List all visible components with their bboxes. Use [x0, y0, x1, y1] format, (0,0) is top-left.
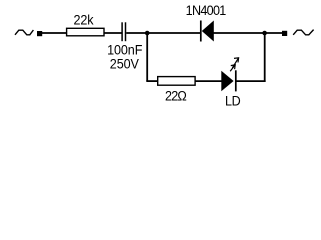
diode D1 triangle [202, 21, 214, 42]
svg-text:22k: 22k [73, 12, 93, 28]
svg-text:LD: LD [225, 93, 241, 109]
AC source tilde left [15, 30, 33, 35]
terminal square left [37, 31, 42, 36]
svg-text:22Ω: 22Ω [165, 88, 187, 104]
wire terminal to R1 [42, 32, 67, 34]
wire C1 to D1 [126, 32, 200, 34]
resistor R1 box [67, 28, 104, 36]
resistor R2 box [158, 77, 195, 86]
LD emission arrow large [232, 58, 238, 68]
LD emission arrow small [230, 65, 235, 71]
terminal square right [282, 31, 287, 36]
diode D1 cathode bar [200, 21, 202, 42]
capacitor C1 plate left [121, 22, 123, 41]
wire node A to R2 [146, 80, 158, 82]
wire node A down [146, 33, 148, 81]
capacitor C1 plate right [125, 22, 127, 41]
wire LD to right vertical [237, 80, 266, 82]
wire R2 to LD [195, 80, 222, 82]
svg-text:1N4001: 1N4001 [186, 3, 226, 19]
AC source tilde right [293, 30, 313, 35]
svg-text:250V: 250V [110, 56, 139, 72]
laser diode LD cathode bar [235, 70, 237, 91]
wire D1 to right terminal [214, 32, 283, 34]
laser diode LD triangle [221, 71, 233, 92]
wire R1 to C1 [104, 32, 122, 34]
wire node B down [264, 33, 266, 82]
node B junction dot [262, 31, 267, 36]
node A junction dot [145, 31, 150, 36]
